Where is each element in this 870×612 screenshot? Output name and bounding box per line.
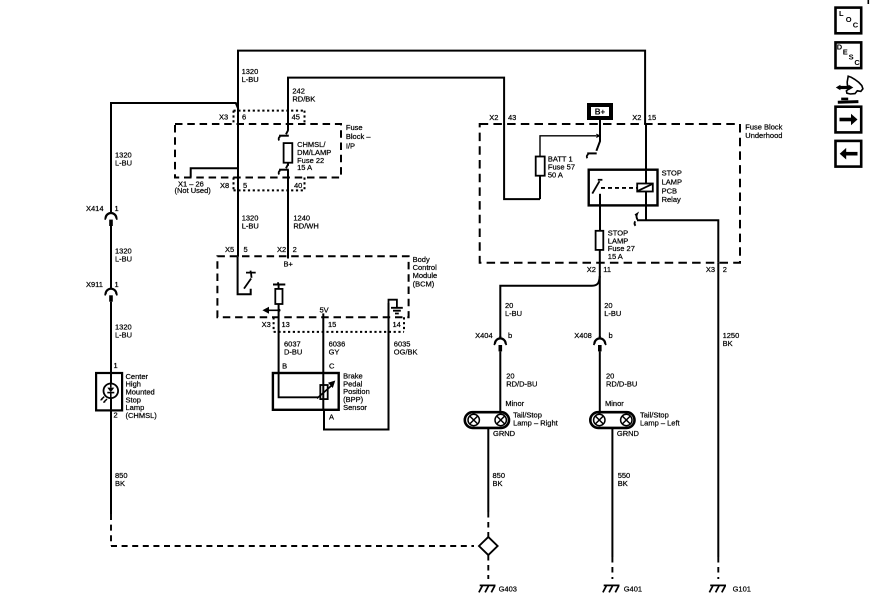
- wire 850 BK below CHMSL: [110, 410, 112, 514]
- svg-text:BK: BK: [115, 479, 125, 488]
- wire B+ box stub: [596, 120, 600, 151]
- fuse STOP LAMP Fuse 27 element: [596, 231, 604, 250]
- svg-text:GY: GY: [329, 348, 340, 357]
- CHMSL lamp box: [96, 373, 122, 410]
- svg-text:Lamp – Left: Lamp – Left: [640, 419, 681, 428]
- wire 1250 BK dashed to ground: [717, 557, 719, 579]
- svg-text:LAMP: LAMP: [662, 177, 682, 186]
- svg-text:C: C: [329, 362, 335, 371]
- fuse 22 element: [284, 143, 293, 163]
- svg-text:Fuse Block: Fuse Block: [745, 122, 782, 131]
- svg-text:RD/WH: RD/WH: [293, 222, 318, 231]
- wire 850 BK dashed to splice: [111, 514, 474, 546]
- svg-text:E: E: [843, 47, 848, 56]
- svg-text:15: 15: [328, 320, 336, 329]
- connector X911: [105, 286, 117, 301]
- svg-text:(Not Used): (Not Used): [175, 186, 212, 195]
- svg-text:43: 43: [508, 113, 516, 122]
- svg-text:2: 2: [723, 265, 727, 274]
- CHMSL LED diode: [107, 384, 114, 399]
- relay dashed link to coil: [601, 187, 637, 189]
- svg-text:5: 5: [243, 181, 247, 190]
- svg-text:Relay: Relay: [662, 195, 681, 204]
- wire BATT1 fuse lower lead: [539, 176, 541, 199]
- svg-text:13: 13: [282, 320, 290, 329]
- wire BATT1 fuse upper lead thin: [540, 136, 596, 157]
- relay box STOP LAMP PCB Relay: [589, 170, 658, 206]
- splice diamond S403: [479, 537, 498, 555]
- svg-text:X911: X911: [86, 280, 103, 289]
- wire 1250 BK down to G101: [717, 263, 719, 557]
- svg-text:L-BU: L-BU: [115, 255, 132, 264]
- wire 1320 L-BU through IP fuse block pin 6 to X5: [237, 108, 239, 257]
- svg-text:15 A: 15 A: [608, 252, 623, 261]
- wire lamp right GRND 850 BK: [487, 428, 489, 512]
- wire 1320 L-BU between X414 and X911: [110, 226, 112, 288]
- svg-text:X2: X2: [632, 113, 641, 122]
- svg-text:b: b: [609, 331, 613, 340]
- svg-text:I/P: I/P: [346, 142, 355, 151]
- wire 20 RD/D-BU to lamp left: [599, 351, 601, 412]
- svg-text:1: 1: [115, 204, 119, 213]
- fuse 22 lower hook: [279, 165, 289, 175]
- relay armature lever: [592, 181, 599, 193]
- relay coil: [637, 184, 653, 192]
- svg-text:B+: B+: [284, 259, 294, 268]
- wire top loop 1320 L-BU: [238, 51, 645, 124]
- svg-text:Fuse: Fuse: [346, 123, 363, 132]
- svg-text:b: b: [508, 331, 512, 340]
- svg-text:G401: G401: [624, 585, 642, 594]
- svg-text:BK: BK: [723, 339, 733, 348]
- ground G403: [479, 585, 496, 592]
- svg-text:G101: G101: [733, 585, 751, 594]
- wire fuse27 to X2-11 to lamp left feed: [599, 250, 601, 337]
- svg-text:(BCM): (BCM): [413, 279, 435, 288]
- svg-text:X3: X3: [262, 320, 271, 329]
- svg-text:X2: X2: [277, 245, 286, 254]
- fuse block IP dashed outline: [175, 124, 341, 178]
- svg-text:BK: BK: [493, 479, 503, 488]
- svg-text:L-BU: L-BU: [242, 75, 259, 84]
- svg-text:50 A: 50 A: [548, 170, 563, 179]
- wire 242 RD/BK top loop: [288, 78, 504, 131]
- connector X8 dotted bracket bottom of IP block: [234, 178, 305, 191]
- bulb filament X right: [495, 414, 506, 425]
- svg-text:X404: X404: [475, 331, 493, 340]
- wire relay switch output to fuse27: [599, 194, 601, 231]
- svg-text:Lamp – Right: Lamp – Right: [513, 419, 559, 428]
- svg-text:RD/D-BU: RD/D-BU: [506, 380, 537, 389]
- icon box LOC: [836, 8, 862, 34]
- wire 6037 D-BU resistor to BPP pin B: [278, 304, 280, 373]
- bulb filament X left: [468, 414, 479, 425]
- wire CHMSL through lamp: [110, 373, 112, 410]
- svg-text:5: 5: [244, 245, 248, 254]
- connector X408 b: [594, 336, 606, 351]
- svg-text:2: 2: [293, 245, 297, 254]
- BCM dashed outline: [217, 256, 408, 317]
- svg-text:X2: X2: [489, 113, 498, 122]
- BPP potentiometer element: [320, 385, 327, 399]
- svg-text:Block –: Block –: [346, 132, 371, 141]
- fuse block underhood dashed outline: [480, 124, 740, 263]
- lamp pill Tail/Stop Lamp Left: [590, 412, 634, 428]
- BCM output arrow left: [262, 307, 280, 314]
- wire 20 L-BU to X404 lamp right: [499, 336, 501, 339]
- svg-text:X5: X5: [225, 245, 234, 254]
- svg-text:14: 14: [393, 320, 401, 329]
- svg-text:S: S: [849, 53, 854, 62]
- page corner tick: [867, 0, 869, 4]
- fuse CHMSL/DM LAMP Fuse 22 hooks: [279, 131, 289, 141]
- icon box DESC: [836, 42, 862, 68]
- svg-text:L-BU: L-BU: [242, 222, 259, 231]
- svg-text:6: 6: [242, 112, 246, 121]
- svg-text:BK: BK: [618, 479, 628, 488]
- svg-text:1: 1: [114, 361, 118, 370]
- wire dashed to splice diamond: [487, 512, 489, 537]
- BCM switch lever: [244, 279, 251, 289]
- wire dashed to G401: [611, 557, 613, 579]
- fuse BATT 1 Fuse 57 element: [536, 157, 545, 176]
- svg-text:15 A: 15 A: [297, 163, 312, 172]
- svg-text:X414: X414: [86, 204, 104, 213]
- CHMSL LED circle: [104, 384, 119, 399]
- BPP sensor box: [273, 373, 339, 410]
- svg-text:Underhood: Underhood: [745, 131, 782, 140]
- svg-text:40: 40: [294, 181, 302, 190]
- svg-text:C: C: [853, 21, 859, 30]
- bulb filament X left: [594, 414, 605, 425]
- svg-text:L-BU: L-BU: [115, 159, 132, 168]
- svg-text:G403: G403: [499, 585, 517, 594]
- connector hook coil output: [635, 214, 638, 226]
- connector hook relay feed: [587, 153, 597, 158]
- svg-text:B+: B+: [595, 108, 606, 117]
- svg-text:1: 1: [115, 280, 119, 289]
- lamp pill Tail/Stop Lamp Right: [465, 412, 509, 428]
- svg-text:L: L: [839, 9, 844, 18]
- BCM driver contact T-bar: [273, 282, 285, 284]
- wire relay coil output to X3-2: [637, 220, 718, 262]
- svg-text:X2: X2: [587, 265, 596, 274]
- svg-text:STOP: STOP: [662, 168, 682, 177]
- svg-text:5V: 5V: [320, 306, 329, 315]
- BPP pot track wire C to A: [322, 373, 324, 410]
- svg-text:B: B: [282, 362, 287, 371]
- wire 20 RD/D-BU to lamp right: [499, 351, 501, 412]
- svg-text:Minor: Minor: [505, 399, 524, 408]
- BCM resistor lead: [278, 285, 280, 289]
- svg-text:Minor: Minor: [605, 399, 624, 408]
- wire 6035 OG/BK pin 14 to BPP pin A: [324, 303, 389, 430]
- svg-text:L-BU: L-BU: [115, 331, 132, 340]
- svg-text:X3: X3: [706, 265, 715, 274]
- svg-text:(CHMSL): (CHMSL): [126, 411, 158, 420]
- icon wire repair wrench: [836, 76, 863, 102]
- B+ power symbol box: [589, 105, 611, 118]
- BPP internal wiper wire from pin B: [279, 373, 318, 397]
- svg-text:Sensor: Sensor: [343, 403, 367, 412]
- BCM switch fixed contact: [246, 271, 256, 278]
- wire 1320 L-BU into CHMSL: [110, 302, 112, 373]
- wire left branch to X3 pin: [111, 103, 238, 109]
- wire branch to X404 with curve: [500, 276, 600, 337]
- svg-text:15: 15: [648, 113, 656, 122]
- svg-text:RD/BK: RD/BK: [292, 95, 315, 104]
- svg-text:GRND: GRND: [493, 429, 516, 438]
- svg-text:A: A: [329, 413, 334, 422]
- wire left column 1320 L-BU upper: [110, 102, 112, 212]
- svg-text:2: 2: [114, 410, 118, 419]
- BCM input switch wire: [238, 257, 251, 295]
- svg-text:GRND: GRND: [617, 429, 640, 438]
- svg-text:11: 11: [603, 265, 611, 274]
- svg-text:L-BU: L-BU: [604, 309, 621, 318]
- svg-text:C: C: [854, 58, 860, 67]
- svg-text:D-BU: D-BU: [284, 348, 302, 357]
- connector X3 dotted bracket bottom of BCM: [274, 317, 404, 332]
- svg-text:X3: X3: [219, 112, 228, 121]
- wire dashed splice to G403: [487, 555, 489, 579]
- wire X2-15 1240 RD-WH right drop to relay coil: [645, 124, 647, 220]
- connector X3 dotted bracket top of IP block: [234, 111, 305, 124]
- ground G101: [709, 585, 726, 592]
- CHMSL LED emission arrows: [100, 397, 107, 403]
- svg-text:OG/BK: OG/BK: [394, 348, 418, 357]
- svg-text:X408: X408: [574, 331, 592, 340]
- bulb filament X right: [621, 414, 632, 425]
- wire lamp left GRND 550 BK: [611, 428, 613, 557]
- relay fixed contact: [598, 179, 603, 181]
- icon box forward arrow: [836, 107, 862, 133]
- wire X1-26 not used stub: [191, 168, 238, 177]
- connector X414: [105, 211, 117, 226]
- icon box back arrow: [836, 141, 862, 167]
- svg-text:O: O: [846, 15, 852, 24]
- wire 5V supply to pin 15 6036 GY: [322, 313, 324, 373]
- svg-text:45: 45: [292, 112, 300, 121]
- resistor in BCM: [275, 289, 282, 304]
- arrowhead at B+ junction: [596, 134, 601, 138]
- svg-text:X8: X8: [220, 181, 229, 190]
- connector X404 b: [494, 336, 506, 351]
- svg-text:L-BU: L-BU: [505, 309, 522, 318]
- BPP wiper arrow: [317, 381, 335, 399]
- svg-text:RD/D-BU: RD/D-BU: [606, 380, 637, 389]
- wire 1240 RD/WH fuse22 to pin40 to X2-2 B+: [287, 163, 289, 259]
- ground G401: [603, 585, 620, 592]
- BCM internal ground: [389, 300, 403, 314]
- wire X2-43 down left side of underhood block: [504, 124, 540, 199]
